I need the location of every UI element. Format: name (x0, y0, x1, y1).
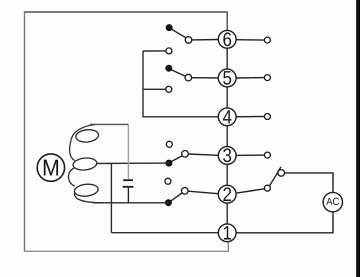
wire: bus branch to switch 6 lower contact (143, 50, 166, 52)
switch S3 pivot (182, 151, 189, 158)
wire: switch S2 pivot to terminal 2 (188, 191, 218, 194)
terminal 5 circle (218, 69, 236, 87)
terminal 4 circle (218, 108, 236, 126)
wire: switch S5 pivot to terminal 5 (192, 77, 219, 79)
wire: line switch contact to AC source (285, 173, 333, 192)
capacitor C1 top plate (123, 179, 133, 181)
wire: terminal column 3-2 (226, 164, 228, 185)
wire: capacitor bottom lead (127, 188, 129, 203)
switch S6 common contact (filled) (166, 25, 172, 31)
wire: capacitor top lead (light) (127, 124, 129, 179)
switch S3 upper contact (open, floating) (166, 141, 172, 147)
wire: bus branch to switch 5 lower contact (143, 88, 166, 90)
switch S5 arm (170, 69, 185, 76)
switch S5 common contact (filled) (166, 65, 172, 71)
motor M circle (37, 154, 64, 181)
svg-text:2: 2 (222, 184, 231, 206)
wire: outer loop bottom to terminal 1 (25, 242, 229, 251)
capacitor C1 bottom plate (123, 186, 134, 188)
wire: right stub of terminal 3 (236, 154, 264, 156)
svg-text:1: 1 (222, 223, 231, 245)
wire: top feed from outer loop to terminal 6 (25, 12, 228, 30)
right edge black band (356, 0, 360, 277)
svg-text:5: 5 (222, 68, 232, 90)
line switch pivot (264, 185, 270, 191)
terminal lug of 4 (264, 114, 270, 120)
wire: right stub of terminal 5 (236, 77, 264, 79)
svg-text:3: 3 (222, 145, 231, 167)
terminal lug of 5 (264, 75, 270, 81)
terminal 2 circle (218, 185, 236, 203)
wire: tap junction down to terminal 1 row (110, 163, 112, 232)
wire: outer loop left vertical (24, 12, 26, 251)
winding entry curve (70, 125, 95, 161)
wire: terminal column 2-1 (226, 203, 228, 224)
terminal 3 circle (218, 147, 236, 165)
wire: switch S3 pivot to terminal 3 (188, 154, 218, 155)
switch S6 arm (171, 29, 187, 39)
switch S5 pivot (185, 74, 192, 81)
wire: right stub of terminal 6 (236, 39, 264, 41)
wire: AC source return to terminal 1 (236, 212, 333, 233)
wire: top winding tap horizontal (90, 123, 128, 125)
winding exit curve to bottom tap (75, 193, 103, 203)
line switch arm (open) (270, 167, 281, 186)
wire: bottom winding tap to switch S2 contact (93, 202, 168, 204)
motor winding loop 3 (74, 183, 99, 197)
motor winding loop 2 (72, 157, 97, 171)
switch S2 common contact (filled) (165, 200, 171, 206)
svg-text:AC: AC (326, 196, 340, 208)
wire: terminal column 4-3 (226, 126, 228, 147)
switch S5 lower contact (166, 86, 172, 92)
terminal 6 circle (218, 30, 236, 48)
terminal lug of 6 (264, 37, 270, 43)
svg-text:M: M (42, 154, 60, 180)
wire: middle winding tap to switch S3 contact (96, 162, 169, 164)
winding connector arc 2-3 (68, 168, 74, 186)
wire: terminal 1 left lead (111, 232, 218, 234)
switch S3 common contact (filled) (166, 160, 172, 166)
terminal 1 circle (218, 224, 236, 242)
switch S2 arm (170, 192, 182, 201)
terminal lug of 3 (264, 152, 270, 158)
wire: switch S6 pivot to terminal 6 (192, 39, 218, 41)
switch S2 pivot (182, 188, 189, 195)
switch S6 pivot (185, 37, 192, 44)
wire: right stub of terminal 4 (236, 116, 264, 118)
motor winding loop 1 (75, 129, 99, 144)
svg-text:4: 4 (222, 107, 232, 129)
switch S2 upper contact (open, floating) (165, 178, 171, 184)
wire: terminal column 6-5 (226, 48, 228, 69)
svg-text:6: 6 (222, 29, 231, 51)
line switch contact (278, 170, 285, 177)
wire: terminal column 5-4 (226, 87, 228, 108)
wire: bus from switch contacts to terminal 4 (143, 51, 218, 117)
switch S6 lower contact (166, 48, 172, 54)
switch S3 arm (171, 155, 183, 162)
AC source circle (323, 192, 342, 211)
wire: terminal 2 to line switch (236, 189, 265, 193)
